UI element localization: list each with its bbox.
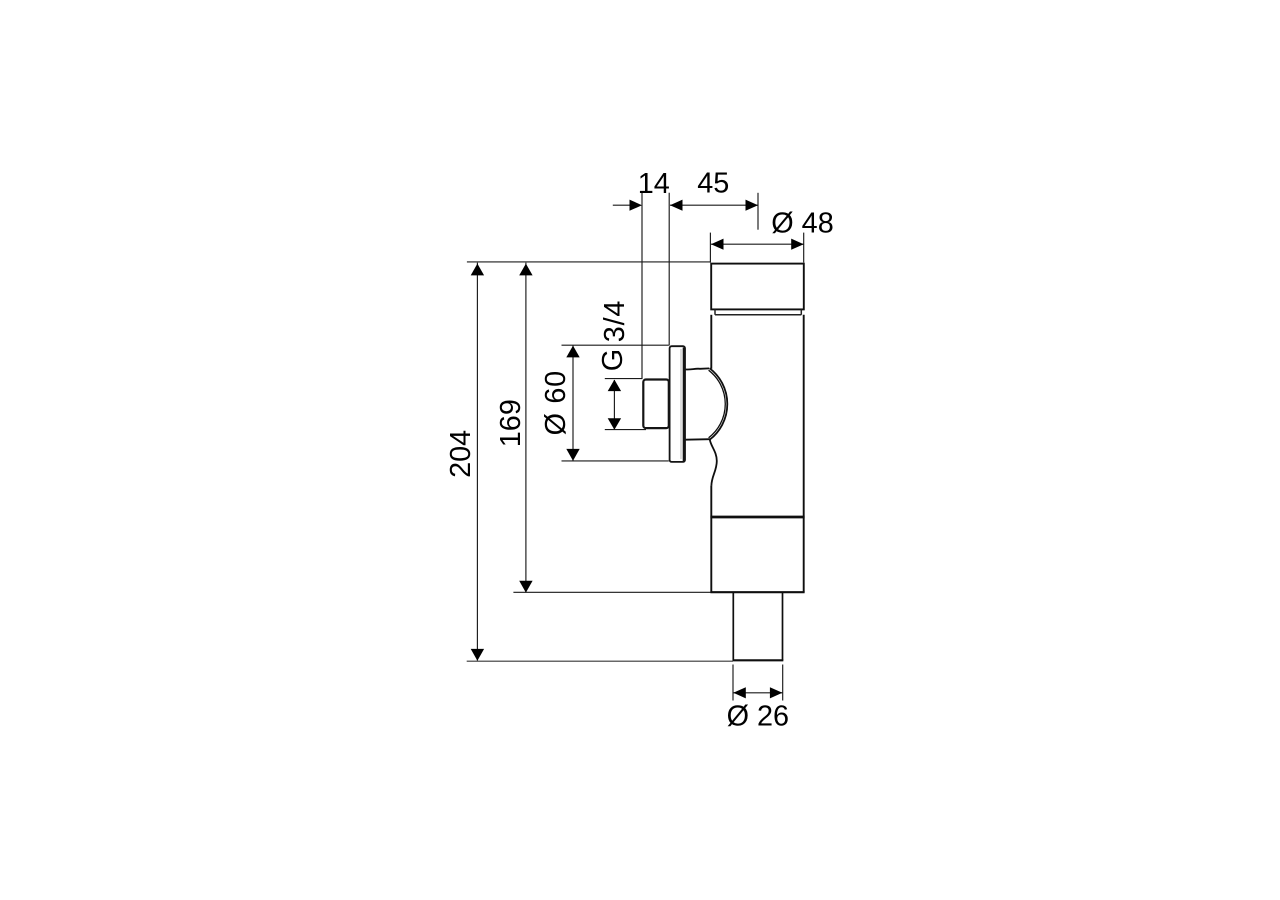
svg-text:Ø 60: Ø 60 [540,370,572,435]
svg-text:169: 169 [495,399,527,447]
svg-text:Ø 48: Ø 48 [771,208,833,240]
svg-text:3/4: 3/4 [599,300,631,342]
svg-text:14: 14 [638,168,670,200]
svg-text:204: 204 [445,430,477,478]
svg-text:Ø 26: Ø 26 [727,701,789,733]
svg-text:G: G [597,349,629,371]
svg-text:45: 45 [697,168,729,200]
